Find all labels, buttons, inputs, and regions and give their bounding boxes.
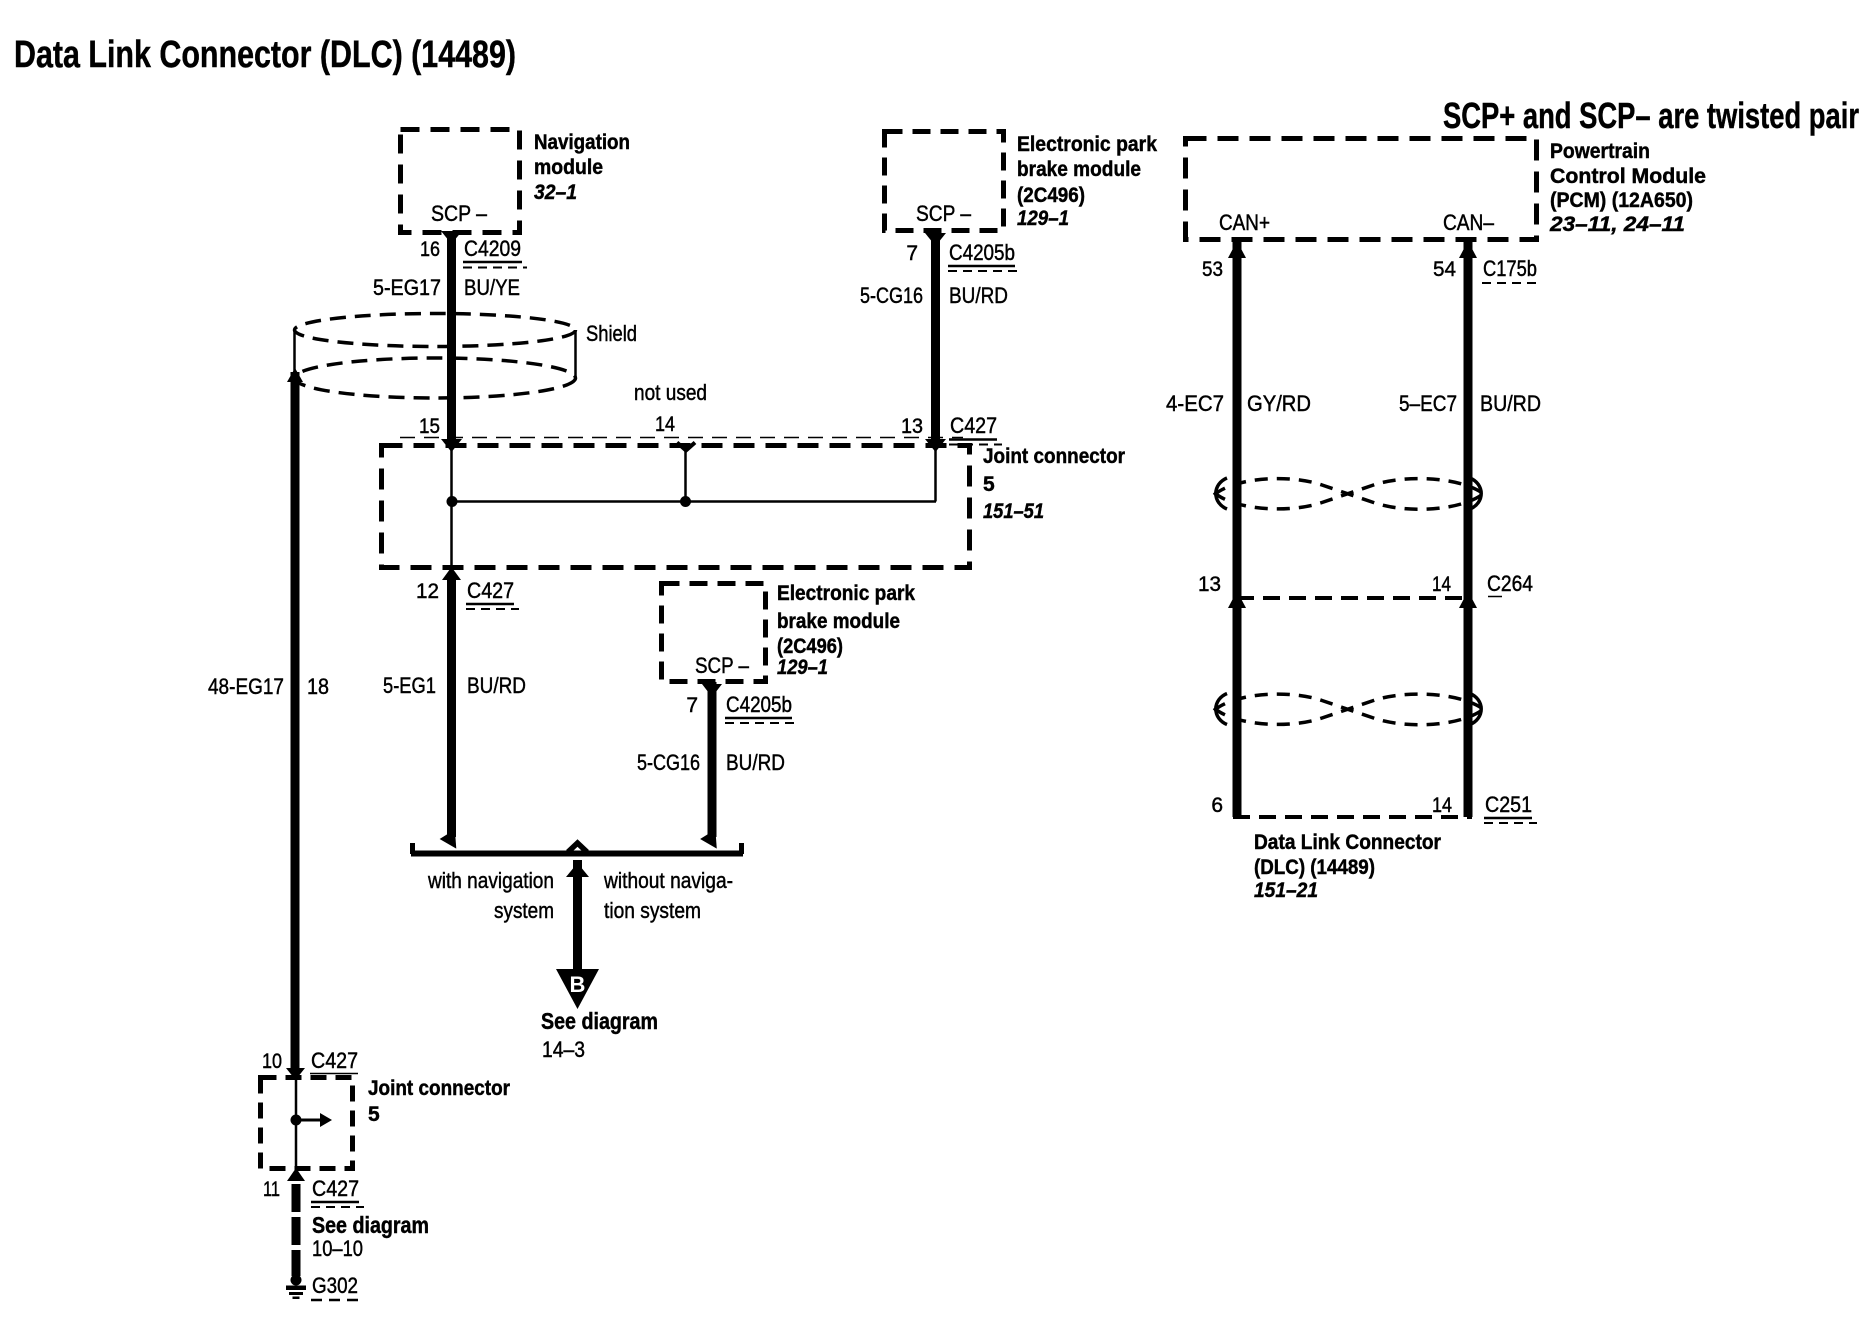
svg-text:C264: C264 — [1487, 571, 1533, 596]
twisted pair symbol lower — [1214, 694, 1483, 725]
svg-text:brake module: brake module — [777, 610, 900, 633]
svg-text:Data Link Connector (DLC) (144: Data Link Connector (DLC) (14489) — [14, 34, 516, 76]
svg-text:13: 13 — [901, 415, 923, 438]
svg-text:SCP –: SCP – — [916, 201, 972, 226]
bus wire inside joint connector — [452, 500, 936, 503]
svg-text:(DLC) (14489): (DLC) (14489) — [1254, 856, 1375, 879]
powertrain control module box — [1186, 139, 1537, 240]
svg-text:5: 5 — [368, 1103, 380, 1126]
svg-text:5-CG16: 5-CG16 — [637, 750, 700, 775]
svg-text:CAN–: CAN– — [1443, 210, 1495, 235]
svg-text:GY/RD: GY/RD — [1247, 391, 1311, 416]
svg-text:C251: C251 — [1485, 792, 1532, 817]
svg-text:Navigation: Navigation — [534, 131, 630, 154]
svg-text:See diagram: See diagram — [312, 1212, 429, 1238]
joint connector 5 label — [983, 445, 1125, 523]
connector C251 line — [1233, 815, 1472, 819]
svg-text:14: 14 — [1432, 573, 1451, 596]
connector C251 — [1484, 792, 1537, 823]
shield symbol — [295, 314, 576, 399]
svg-text:C427: C427 — [950, 413, 997, 438]
svg-text:not used: not used — [634, 380, 707, 405]
svg-text:5-CG16: 5-CG16 — [860, 283, 923, 308]
svg-text:C427: C427 — [467, 578, 514, 603]
navigation module U1 box — [401, 130, 520, 233]
svg-text:BU/RD: BU/RD — [1480, 391, 1541, 416]
wire SCP- from navigation module pin 16 — [441, 231, 462, 452]
joint connector 5 box — [382, 438, 970, 568]
svg-text:B: B — [570, 972, 586, 997]
svg-text:129–1: 129–1 — [1017, 207, 1069, 230]
svg-text:BU/RD: BU/RD — [467, 673, 526, 698]
wire CAN- — [1459, 241, 1477, 817]
wire label 5-EG1 BU/RD — [383, 673, 526, 698]
connector C4209 — [463, 236, 527, 268]
svg-text:BU/YE: BU/YE — [464, 275, 520, 300]
wire inside joint connector from pin 14 — [684, 450, 687, 502]
connector C427 top — [949, 413, 1002, 445]
svg-text:11: 11 — [263, 1178, 280, 1201]
svg-text:48-EG17: 48-EG17 — [208, 674, 284, 699]
svg-text:BU/RD: BU/RD — [726, 750, 785, 775]
svg-text:18: 18 — [307, 674, 329, 699]
svg-text:(PCM) (12A650): (PCM) (12A650) — [1550, 189, 1693, 212]
navigation module label — [534, 131, 630, 204]
svg-text:13: 13 — [1198, 573, 1221, 596]
svg-text:4-EC7: 4-EC7 — [1166, 391, 1224, 416]
svg-text:CAN+: CAN+ — [1219, 210, 1270, 235]
junction node lower joint connector — [291, 1115, 302, 1126]
svg-text:10–10: 10–10 — [312, 1236, 363, 1261]
svg-text:54: 54 — [1433, 258, 1456, 281]
ground G302 — [286, 1275, 306, 1300]
svg-text:53: 53 — [1202, 258, 1223, 281]
wire CAN+ — [1228, 241, 1246, 817]
wire label 5-EG17 BU/YE — [373, 275, 520, 300]
branch arrow inside lower joint connector — [296, 1113, 332, 1127]
svg-text:151–21: 151–21 — [1254, 879, 1318, 902]
svg-text:6: 6 — [1211, 794, 1223, 817]
svg-text:C427: C427 — [311, 1048, 358, 1073]
svg-text:14: 14 — [655, 413, 675, 436]
connector C264 line — [1237, 596, 1468, 600]
svg-text:7: 7 — [906, 242, 918, 265]
connector C427 pin 12 — [466, 578, 519, 609]
junction node pin 15/12 — [447, 496, 458, 507]
svg-text:C4205b: C4205b — [949, 240, 1015, 265]
svg-text:C427: C427 — [312, 1176, 359, 1201]
wire label 5-EC7 BU/RD — [1399, 391, 1541, 416]
svg-text:23–11, 24–11: 23–11, 24–11 — [1549, 213, 1685, 236]
wire SCP- from upper park brake module pin 7 — [925, 231, 946, 452]
connector C427 pin 10 — [310, 1048, 358, 1074]
wire label 48-EG17 18 — [208, 674, 329, 699]
wire 5-EG1 BU/RD — [440, 580, 464, 853]
svg-text:151–51: 151–51 — [983, 500, 1044, 523]
svg-text:(2C496): (2C496) — [1017, 184, 1085, 207]
svg-text:5-EG17: 5-EG17 — [373, 275, 441, 300]
svg-text:C175b: C175b — [1483, 256, 1537, 281]
svg-text:with navigation: with navigation — [427, 868, 554, 893]
svg-text:12: 12 — [416, 580, 439, 603]
wire to ground G302 — [292, 1184, 301, 1276]
connector C427 pin 11 — [311, 1176, 364, 1207]
svg-text:system: system — [494, 898, 554, 923]
arrow into C264 right — [1459, 591, 1477, 608]
svg-text:15: 15 — [419, 415, 440, 438]
wire to diagram B — [566, 860, 589, 972]
svg-text:G302: G302 — [312, 1273, 358, 1298]
svg-text:See diagram: See diagram — [541, 1008, 658, 1034]
joint connector 5 lower label — [368, 1077, 510, 1126]
connector C4205b lower — [725, 692, 797, 723]
twisted pair symbol upper — [1214, 478, 1483, 509]
svg-text:BU/RD: BU/RD — [949, 283, 1008, 308]
svg-text:5–EC7: 5–EC7 — [1399, 391, 1457, 416]
electronic park brake module lower label — [777, 582, 915, 679]
connector C4205b upper — [948, 240, 1020, 271]
junction node pin 14 — [680, 496, 691, 507]
svg-text:5: 5 — [983, 473, 995, 496]
ground label G302 — [311, 1273, 358, 1300]
merge bracket — [411, 843, 743, 854]
data link connector label — [1254, 831, 1441, 902]
svg-text:129–1: 129–1 — [777, 656, 828, 679]
joint connector 5 lower box — [261, 1077, 353, 1169]
svg-text:Data Link Connector: Data Link Connector — [1254, 831, 1441, 854]
svg-text:5-EG1: 5-EG1 — [383, 673, 436, 698]
svg-text:C4209: C4209 — [464, 236, 521, 261]
electronic park brake module box upper — [885, 132, 1004, 231]
svg-text:SCP –: SCP – — [695, 653, 750, 678]
svg-text:14: 14 — [1432, 794, 1452, 817]
electronic park brake module upper label — [1017, 133, 1157, 230]
wire label 5-CG16 BU/RD lower — [637, 750, 785, 775]
svg-text:32–1: 32–1 — [534, 181, 577, 204]
off-page arrow B — [556, 969, 599, 1009]
svg-text:Joint connector: Joint connector — [368, 1077, 510, 1100]
wire 48-EG17 shield drain — [286, 368, 305, 1080]
svg-text:tion system: tion system — [604, 898, 701, 923]
with/without navigation labels — [427, 868, 733, 923]
arrow into C264 left — [1228, 591, 1246, 608]
wire SCP- from lower park brake module pin 7 — [700, 682, 724, 853]
svg-text:Electronic park: Electronic park — [1017, 133, 1157, 156]
svg-text:module: module — [534, 156, 603, 179]
connector C175b — [1482, 256, 1540, 283]
wire inside joint connector from pin 13 — [934, 450, 937, 502]
svg-text:brake module: brake module — [1017, 158, 1141, 181]
pin 11 arrow into lower joint connector — [287, 1168, 305, 1181]
svg-text:14–3: 14–3 — [542, 1037, 585, 1062]
electronic park brake module box lower — [662, 584, 766, 682]
svg-text:Shield: Shield — [586, 321, 637, 346]
wire label 4-EC7 GY/RD — [1166, 391, 1311, 416]
svg-text:SCP+ and SCP– are twisted pair: SCP+ and SCP– are twisted pair — [1443, 95, 1859, 136]
svg-text:without naviga-: without naviga- — [603, 868, 733, 893]
svg-text:10: 10 — [262, 1050, 282, 1073]
see diagram 14-3 label — [541, 1008, 658, 1062]
see diagram 10-10 label — [312, 1212, 429, 1261]
svg-text:C4205b: C4205b — [726, 692, 792, 717]
svg-text:Control Module: Control Module — [1550, 165, 1706, 188]
svg-text:7: 7 — [686, 694, 698, 717]
wire label 5-CG16 BU/RD upper — [860, 283, 1008, 308]
svg-text:SCP –: SCP – — [431, 201, 488, 226]
wire inside joint connector pin 15 to pin 12 — [450, 450, 453, 568]
powertrain control module label — [1549, 140, 1706, 236]
svg-text:(2C496): (2C496) — [777, 635, 843, 658]
pin 12 arrow into joint connector — [442, 567, 461, 580]
svg-text:Powertrain: Powertrain — [1550, 140, 1650, 163]
svg-text:16: 16 — [420, 238, 440, 261]
connector C264 — [1487, 571, 1533, 597]
svg-text:Electronic park: Electronic park — [777, 582, 915, 605]
pin 14 notch — [677, 443, 695, 451]
svg-text:Joint connector: Joint connector — [983, 445, 1125, 468]
